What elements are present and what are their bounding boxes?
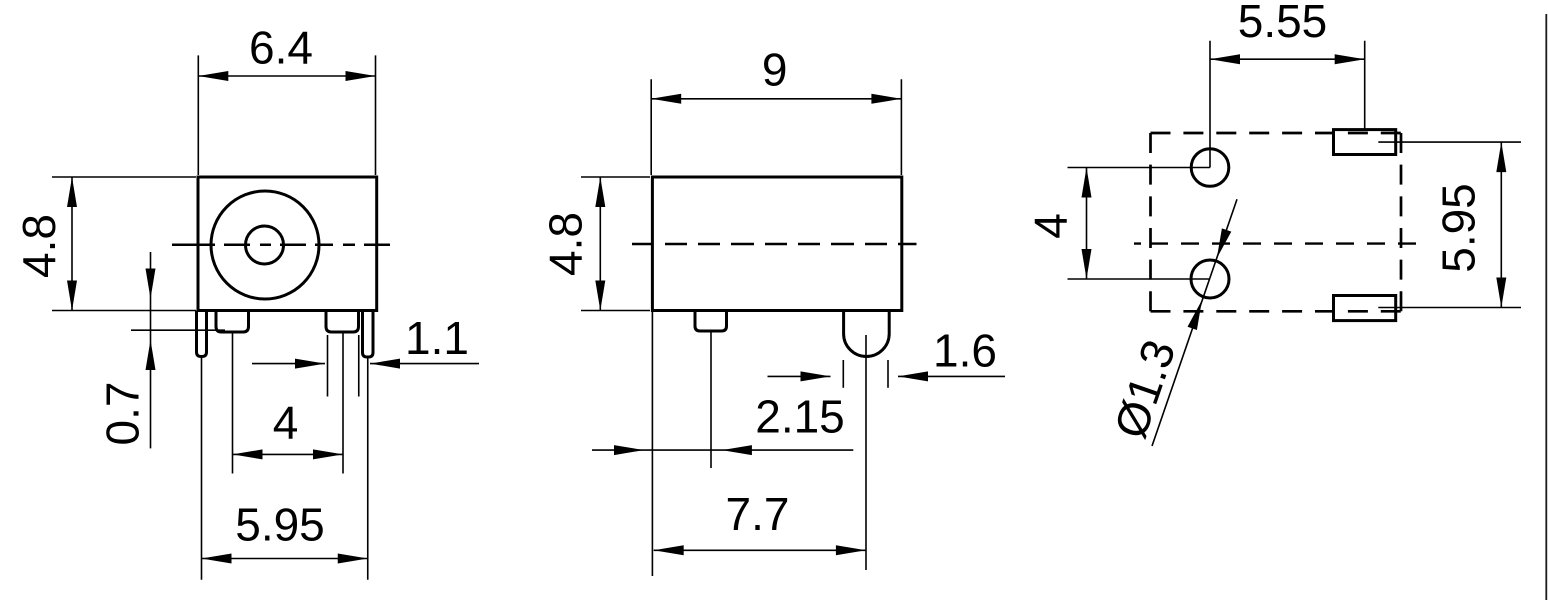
svg-text:0.7: 0.7 (97, 382, 149, 446)
bottom view bottom tab (1334, 296, 1396, 321)
svg-text:5.95: 5.95 (1433, 183, 1485, 273)
svg-text:4.8: 4.8 (13, 214, 65, 278)
dimension 0.7 (97, 252, 225, 448)
side view body (652, 177, 901, 311)
dimension 5.55 (1210, 0, 1365, 167)
extension line round leg left edge (842, 360, 844, 388)
dimension 2.15 (592, 391, 853, 456)
front view left leg (197, 311, 207, 357)
svg-text:2.15: 2.15 (755, 391, 845, 443)
dimension 4.8 front (13, 177, 196, 311)
dimension 5.95 bottom view (1378, 142, 1521, 307)
bottom view top tab (1334, 130, 1396, 155)
dimension 4 front (233, 397, 344, 460)
bottom view pin hole 1 (1191, 149, 1229, 187)
right page border (1545, 14, 1547, 600)
front view barrel outer circle (211, 191, 319, 299)
svg-text:5.95: 5.95 (235, 499, 325, 551)
front view left pin tab (216, 311, 249, 333)
extension line round leg right edge (887, 360, 889, 388)
svg-text:5.55: 5.55 (1238, 0, 1328, 47)
svg-text:1.6: 1.6 (933, 325, 997, 377)
dimension 4 bottom view (1025, 168, 1210, 280)
side view center line (632, 243, 917, 246)
dimension 4.8 side (540, 177, 650, 311)
bottom view outline dashed rect (1151, 133, 1402, 311)
svg-text:4: 4 (273, 397, 299, 449)
dimension 9 (651, 44, 901, 175)
front view center pin circle (246, 226, 284, 264)
front view center line (172, 243, 390, 246)
extension line side body left edge (651, 311, 653, 577)
bottom view center line (1134, 242, 1420, 244)
dimension 1.6 (768, 325, 1006, 382)
svg-text:Ø1.3: Ø1.3 (1104, 333, 1186, 444)
side view small pin (695, 311, 727, 332)
svg-text:1.1: 1.1 (405, 312, 469, 364)
dimension 7.7 (654, 488, 866, 555)
svg-text:7.7: 7.7 (726, 488, 790, 540)
extension line right pin center (342, 332, 344, 474)
front view right leg (363, 311, 374, 358)
bottom view pin hole 2 (1191, 260, 1229, 298)
extension line left pin center (232, 332, 234, 474)
extension line right pin left edge (327, 335, 329, 397)
svg-text:6.4: 6.4 (249, 22, 313, 74)
extension line round leg center (865, 335, 867, 570)
extension line right leg center (367, 357, 369, 580)
front view right pin tab (326, 311, 359, 333)
dimension 6.4 (198, 22, 375, 175)
extension line small pin center (710, 331, 712, 468)
side view round leg (844, 311, 890, 357)
extension line right pin right edge (358, 335, 360, 397)
front view body (198, 177, 377, 311)
svg-text:4.8: 4.8 (540, 212, 592, 276)
diameter 1.3 leader (1104, 199, 1237, 446)
dimension 1.1 (252, 312, 479, 369)
svg-text:4: 4 (1025, 213, 1077, 239)
dimension 5.95 front (202, 499, 368, 564)
extension line left leg center (201, 357, 203, 580)
svg-text:9: 9 (762, 44, 788, 96)
